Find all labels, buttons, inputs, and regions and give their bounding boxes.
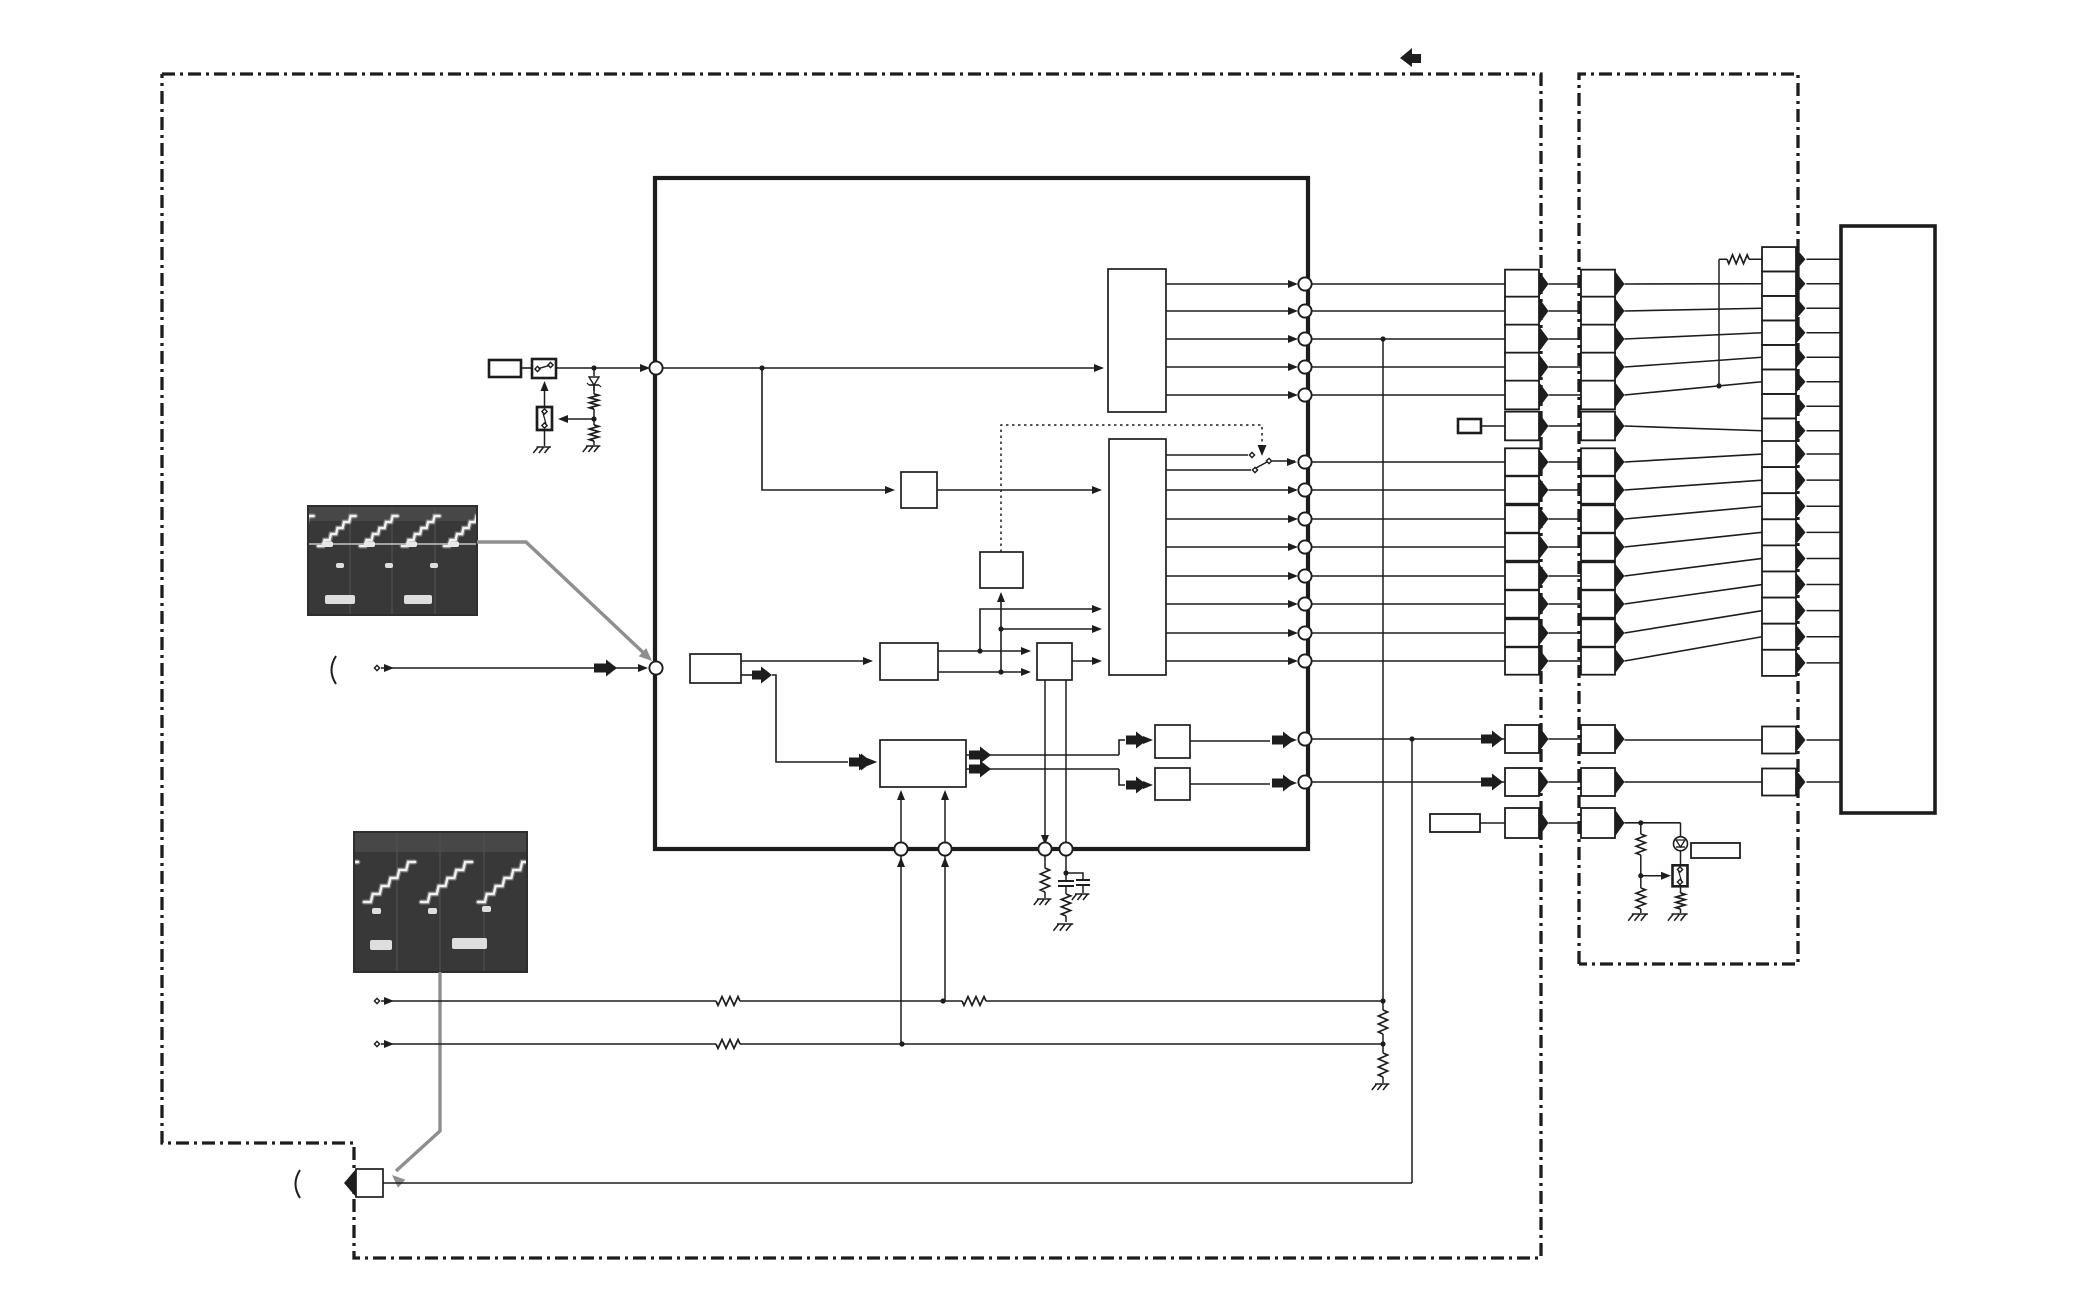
- wire: pin 604 to connector: [1311, 603, 1505, 605]
- wire: pin 284 to connector: [1311, 283, 1505, 285]
- connector CN1 cell row 547: [1505, 533, 1539, 560]
- ground: [1372, 1084, 1377, 1090]
- wire: B bus link1: [1549, 781, 1582, 783]
- wire: row 576 link2: [1625, 558, 1763, 576]
- node: divider tap: [593, 409, 595, 425]
- resistor R020: [1727, 255, 1749, 264]
- wire: driver B output row 547: [1166, 546, 1296, 548]
- wire: pin 547 to connector: [1311, 546, 1505, 548]
- pin at y=367: [1298, 360, 1311, 373]
- connector CN2 cell row 367: [1581, 353, 1615, 382]
- wire: sandcastle return: [1411, 739, 1413, 1183]
- wire: row 519 link1: [1549, 518, 1582, 520]
- connector CN1 cell aux: [1505, 808, 1539, 838]
- wire: branch down to sync sep: [762, 368, 893, 490]
- wire: CN3 row 382 to panel: [1807, 381, 1842, 383]
- wire: bias line 1: [381, 1000, 716, 1002]
- block: sync separator: [901, 472, 937, 508]
- label box (bus signal): [1430, 814, 1480, 832]
- connector CN3 cell row 506: [1762, 493, 1796, 519]
- wire: sync sep to driver B: [937, 489, 1100, 491]
- pin at y=519: [1298, 512, 1311, 525]
- connector CN3 cell row 532: [1762, 519, 1796, 545]
- control line (dotted) osc to output switch: [1001, 425, 1262, 552]
- wire: R bus link2: [1625, 739, 1763, 741]
- wire: row 284 link1: [1549, 283, 1582, 285]
- wire: CN3 row 357 to panel: [1807, 356, 1842, 358]
- wire: CN3 row 259 to panel: [1807, 258, 1842, 260]
- resistor R011: [1061, 894, 1070, 916]
- wire: row 339 link2: [1625, 333, 1763, 339]
- connector CN3 cell row 585: [1762, 572, 1796, 598]
- wire: clamp to U-B: [741, 660, 871, 662]
- connector CN1 cell row 395: [1505, 381, 1539, 410]
- input bracket (cable): [332, 656, 337, 684]
- wire: row 519 link2: [1625, 506, 1763, 519]
- connector CN1 cell row 284: [1505, 270, 1539, 299]
- block: output amp 1: [1155, 725, 1190, 758]
- wire: aux row to LED: [1625, 822, 1681, 824]
- wire: row 284 link2: [1625, 283, 1763, 285]
- switch S001: [532, 359, 556, 378]
- wire: amp2 to pin: [1190, 783, 1270, 785]
- capacitor C010: [1065, 855, 1067, 872]
- board outline: panel PCB (dash-dot): [1579, 74, 1798, 964]
- wire: CN3 row 585 to panel: [1807, 584, 1842, 586]
- IC U001 timing generator (main block): [655, 178, 1308, 849]
- pin at y=395: [1298, 388, 1311, 401]
- wire: CN3 row 637 to panel: [1807, 636, 1842, 638]
- wire: R bus link1: [1549, 738, 1582, 740]
- connector CN2 cell R bus: [1581, 725, 1615, 753]
- connector CN1 cell R bus: [1505, 725, 1539, 753]
- wire: CN3 row 454 to panel: [1807, 453, 1842, 455]
- wire: driver B output row 490: [1166, 489, 1296, 491]
- wire: CN3 B bus to panel: [1807, 781, 1842, 783]
- block: shift register / driver A: [1108, 269, 1166, 412]
- wire: clamp out 2 (bus): [741, 674, 752, 676]
- connector CN2 cell row 576: [1581, 562, 1615, 589]
- switch S002 (mute): [537, 407, 552, 430]
- wire: pin 311 to connector: [1311, 310, 1505, 312]
- connector CN2 cell row 604: [1581, 590, 1615, 617]
- connector CN3 cell row 611: [1762, 598, 1796, 624]
- wire: CN3 row 663 to panel: [1807, 662, 1842, 664]
- connector CN1 cell row 367: [1505, 353, 1539, 382]
- wire: S001 to pin: [556, 367, 648, 369]
- wire: feedback column: [1382, 339, 1384, 1001]
- wire: row 426 link2: [1625, 426, 1763, 431]
- connector CN2 cell row 395: [1581, 381, 1615, 410]
- resistor R012: [1382, 1001, 1384, 1010]
- connector CN1 cell row 339: [1505, 325, 1539, 354]
- connector: service pin: [356, 1169, 383, 1197]
- pin: VIDEO IN: [649, 661, 662, 674]
- wire: pin 490 to connector: [1311, 489, 1505, 491]
- ground: [1053, 924, 1058, 931]
- connector CN3 cell B bus: [1762, 769, 1796, 796]
- block: output amp 2: [1155, 768, 1190, 800]
- wire: pullup riser: [1718, 259, 1720, 386]
- pin: bottom 3: [1038, 842, 1051, 855]
- wire: S002 to S001: [544, 385, 546, 407]
- wire: CN3 row 308 to panel: [1807, 307, 1842, 309]
- pin: bottom 4: [1059, 842, 1072, 855]
- switch: output select contact 1: [1166, 454, 1248, 456]
- connector CN2 cell aux: [1581, 808, 1615, 838]
- connector CN2 cell row 633: [1581, 619, 1615, 646]
- wire: pin 576 to connector: [1311, 575, 1505, 577]
- connector CN1 cell row 604: [1505, 590, 1539, 617]
- display panel block: [1841, 226, 1935, 813]
- wire: driver A output row 395: [1166, 394, 1296, 396]
- wire: pin 367 to connector: [1311, 366, 1505, 368]
- connector CN1 cell row 633: [1505, 619, 1539, 646]
- pin: B out: [1298, 775, 1311, 788]
- wire: row 426 link1: [1549, 425, 1582, 427]
- pin at y=633: [1298, 626, 1311, 639]
- wire: tap to S002: [560, 418, 594, 420]
- pin: bottom 1: [894, 842, 907, 855]
- connector CN1 cell row 311: [1505, 297, 1539, 326]
- wire: driver B output row 519: [1166, 518, 1296, 520]
- callout arrow from photo 2 to connector: [396, 972, 440, 1171]
- switch: output select lever: [1256, 462, 1267, 468]
- connector CN1 cell row 490: [1505, 476, 1539, 503]
- ground: [1072, 894, 1077, 900]
- wire: row 633 link2: [1625, 611, 1763, 633]
- connector CN3 cell row 431: [1762, 419, 1796, 443]
- wire: CN3 R bus to panel: [1807, 739, 1842, 741]
- wire: pin 339 to connector: [1311, 338, 1505, 340]
- input connector node: [374, 665, 379, 670]
- connector CN1 cell row 426: [1505, 412, 1539, 441]
- input bracket (cable) 2: [296, 1170, 301, 1198]
- pin at y=661: [1298, 654, 1311, 667]
- connector CN2 cell row 339: [1581, 325, 1615, 354]
- wire: row 661 link2: [1625, 637, 1763, 661]
- wire: U-C down to pin 2: [1065, 680, 1067, 849]
- connector CN1 cell row 519: [1505, 505, 1539, 532]
- connector CN2 cell row 284: [1581, 270, 1615, 299]
- wire: row 339 link1: [1549, 338, 1582, 340]
- pin at y=547: [1298, 540, 1311, 553]
- resistor R031: [1640, 876, 1642, 888]
- block: U-C matrix: [1037, 643, 1072, 680]
- ground: [533, 447, 538, 453]
- pin at y=339: [1298, 332, 1311, 345]
- zener diode D001: [593, 368, 595, 376]
- wire: row 661 link1: [1549, 660, 1582, 662]
- wire: driver B output row 604: [1166, 603, 1296, 605]
- wire: CN3 row 506 to panel: [1807, 505, 1842, 507]
- wire: riser to driver B in2: [980, 609, 1100, 651]
- connector CN3 cell row 308: [1762, 296, 1796, 320]
- block: input clamp: [690, 654, 741, 683]
- connector CN2 cell row 547: [1581, 533, 1615, 560]
- wire: CN3 row 431 to panel: [1807, 430, 1842, 432]
- pin circle: comp video: [649, 361, 662, 374]
- connector CN2 cell B bus: [1581, 768, 1615, 796]
- wire: row 547 link1: [1549, 546, 1582, 548]
- wire: pin 661 to connector: [1311, 660, 1505, 662]
- wire: driver A output row 339: [1166, 338, 1296, 340]
- block: RGB processor U-D: [880, 740, 966, 787]
- wire: driver A output row 367: [1166, 366, 1296, 368]
- ground: [1628, 914, 1633, 921]
- connector CN2 cell row 426: [1581, 412, 1615, 441]
- connector CN3 cell row 284: [1762, 272, 1796, 296]
- wire: row 367 link1: [1549, 366, 1582, 368]
- connector CN2 cell row 519: [1581, 505, 1615, 532]
- connector CN1 cell row 462: [1505, 448, 1539, 475]
- input node: bias line 1: [374, 998, 379, 1003]
- board outline: main PCB (dash-dot): [162, 74, 1541, 1258]
- wire: row 367 link2: [1625, 357, 1763, 367]
- connector CN3 cell row 382: [1762, 370, 1796, 394]
- pin: bottom 2: [938, 842, 951, 855]
- wire: pin 519 to connector: [1311, 518, 1505, 520]
- label box (LED name): [1691, 843, 1740, 858]
- wire: B bus to connector: [1311, 781, 1505, 783]
- block: chroma decoder U-B: [880, 643, 938, 680]
- wire: CN3 row 532 to panel: [1807, 531, 1842, 533]
- wire: pin 395 to connector: [1311, 394, 1505, 396]
- wire: row 576 link1: [1549, 575, 1582, 577]
- pin at y=490: [1298, 483, 1311, 496]
- connector CN3 cell row 333: [1762, 321, 1796, 345]
- wire: to switch S030: [1641, 875, 1664, 877]
- LED D030: [1680, 823, 1682, 837]
- wire: feedback up to U-D in2: [944, 792, 946, 1001]
- wire: row 311 link2: [1625, 308, 1763, 311]
- connector CN3 cell row 480: [1762, 467, 1796, 493]
- wire: U-B out2 to U-C: [938, 671, 1029, 673]
- wire: U-C down to pin: [1044, 680, 1046, 842]
- wire: driver A output row 311: [1166, 310, 1296, 312]
- wire: pin 633 to connector: [1311, 632, 1505, 634]
- wire: S002 to ground: [544, 430, 546, 446]
- wire: CN3 row 611 to panel: [1807, 610, 1842, 612]
- connector CN2 cell row 311: [1581, 297, 1615, 326]
- ground: [1668, 914, 1673, 921]
- connector CN3 cell row 406: [1762, 394, 1796, 418]
- connector CN1 cell row 661: [1505, 647, 1539, 674]
- pin: R out: [1298, 732, 1311, 745]
- connector CN3 cell row 663: [1762, 650, 1796, 676]
- wire: amp1 to pin: [1190, 740, 1270, 742]
- wire: row 490 link1: [1549, 489, 1582, 491]
- wire: row 311 link1: [1549, 310, 1582, 312]
- block: oscillator: [980, 552, 1023, 588]
- capacitor C011: [1066, 873, 1083, 879]
- resistor R032: [1680, 886, 1682, 893]
- wire: riser to osc + driver B in3: [1000, 594, 1002, 672]
- wire: row 604 link1: [1549, 603, 1582, 605]
- connector CN3 cell row 637: [1762, 624, 1796, 650]
- connector CN1 cell B bus: [1505, 768, 1539, 796]
- resistor R001: [593, 385, 595, 394]
- wire: U-D out2 (B): [969, 761, 991, 778]
- wire: CN3 row 480 to panel: [1807, 479, 1842, 481]
- wire: CN3 row 333 to panel: [1807, 332, 1842, 334]
- wire: U-D out1 (R): [969, 747, 991, 764]
- switch: output select contact 2: [1166, 469, 1251, 471]
- pin at y=462: [1298, 455, 1311, 468]
- wire: LED to S030: [1680, 851, 1682, 865]
- pin at y=576: [1298, 569, 1311, 582]
- wire: label to S001: [521, 367, 532, 369]
- wire: row 462 link1: [1549, 461, 1582, 463]
- page flow arrow (to previous sheet): [1400, 48, 1421, 67]
- wire: B bus link2: [1625, 781, 1763, 783]
- wire: driver B output row 576: [1166, 575, 1296, 577]
- connector CN3 cell row 454: [1762, 441, 1796, 467]
- wire: driver B output row 661: [1166, 660, 1296, 662]
- wire: bias line 2: [381, 1043, 716, 1045]
- callout arrow from photo 1 to pin: [477, 542, 649, 658]
- wire: video input to IC pin: [381, 667, 646, 669]
- wire: row 395 link2: [1625, 382, 1763, 395]
- pin at y=604: [1298, 597, 1311, 610]
- block: data driver B: [1109, 439, 1166, 675]
- wire: driver B output row 633: [1166, 632, 1296, 634]
- wire: CN3 row 406 to panel: [1807, 405, 1842, 407]
- ground: [583, 446, 588, 452]
- wire: U-B out1 to U-C: [938, 650, 1029, 652]
- wire: row 547 link2: [1625, 532, 1763, 547]
- resistor R010: [1044, 855, 1046, 868]
- connector CN3 cell R bus: [1762, 727, 1796, 754]
- wire: row 633 link1: [1549, 632, 1582, 634]
- connector CN2 cell row 490: [1581, 476, 1615, 503]
- pin at y=311: [1298, 304, 1311, 317]
- wire: label row link1: [1549, 822, 1582, 824]
- resistor R013: [1382, 1044, 1384, 1053]
- label box (signal): [1458, 419, 1481, 433]
- wire: U-C to driver B: [1072, 660, 1100, 662]
- connector CN1 cell row 576: [1505, 562, 1539, 589]
- wire: CN3 row 558 to panel: [1807, 557, 1842, 559]
- connector CN3 cell row 357: [1762, 345, 1796, 369]
- wire: CN3 row 284 to panel: [1807, 283, 1842, 285]
- wire: row 604 link2: [1625, 585, 1763, 604]
- label box (signal name): [489, 360, 521, 377]
- switch S030: [1673, 865, 1688, 886]
- resistor R002: [589, 425, 598, 441]
- wire: driver A output row 284: [1166, 283, 1296, 285]
- wire: row 395 link1: [1549, 394, 1582, 396]
- wire: feedback up to U-D in1: [900, 792, 902, 1044]
- connector CN2 cell row 462: [1581, 448, 1615, 475]
- wire: row 462 link2: [1625, 454, 1763, 462]
- wire: R bus to connector: [1311, 738, 1505, 740]
- wire: pin368 to block U-A: [663, 367, 1102, 369]
- input node: bias line 2: [374, 1041, 379, 1046]
- connector CN3 cell row 259: [1762, 247, 1796, 271]
- ground: [1034, 899, 1039, 905]
- wire: row 490 link2: [1625, 480, 1763, 490]
- pin at y=284: [1298, 277, 1311, 290]
- connector CN3 cell row 558: [1762, 545, 1796, 571]
- resistor R030: [1640, 823, 1642, 834]
- connector CN2 cell row 661: [1581, 647, 1615, 674]
- wire: pin 462 to connector: [1311, 461, 1505, 463]
